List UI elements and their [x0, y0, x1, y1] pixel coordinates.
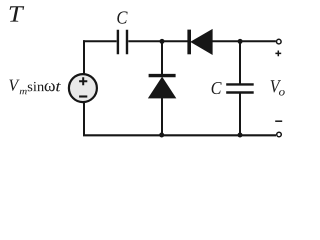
stray glyph T (cropped caption letter, top-left) [10, 6, 25, 21]
wire output-capacitor branch vertical [239, 41, 241, 136]
diode D1 triangle [191, 30, 212, 55]
source Vs (AC source circle) [69, 74, 97, 102]
label output minus [275, 120, 282, 122]
label C2 value C [212, 82, 222, 94]
diode D1 series (points left) cathode bar [187, 30, 191, 55]
source plus sign [79, 77, 87, 85]
node dot bottom junction at output cap [238, 133, 243, 138]
capacitor C2 output plates [226, 84, 254, 92]
terminal output positive (open circle) [277, 39, 282, 44]
wire shunt-diode branch vertical [161, 41, 163, 136]
label source sin [28, 82, 44, 91]
wire left vertical (source branch) [83, 40, 85, 136]
label output plus [275, 51, 281, 57]
label output voltage Vo [271, 80, 281, 92]
label source t [56, 83, 61, 92]
label source voltage Vm [9, 80, 19, 91]
node dot top junction at output cap [238, 39, 243, 44]
node dot bottom junction at shunt diode [159, 133, 164, 138]
node dot top junction at shunt diode [160, 39, 165, 44]
diode D2 shunt (points up) cathode bar [149, 74, 176, 77]
label source omega [45, 83, 55, 91]
diode D2 triangle [149, 77, 176, 98]
terminal output negative (open circle) [277, 132, 282, 137]
wire bottom horizontal [83, 134, 276, 136]
label C1 value C [117, 11, 127, 23]
wire top horizontal segments [83, 40, 276, 42]
source minus sign [79, 95, 87, 97]
capacitor C1 series (top) plates [118, 30, 127, 54]
